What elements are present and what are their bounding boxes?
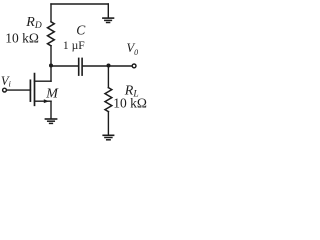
capacitor C: [79, 58, 82, 75]
wire: drain lead into transistor: [35, 80, 52, 82]
wire: capacitor to output terminal: [83, 65, 132, 67]
ground (AC ground at top right): [103, 18, 114, 22]
wire: drain node to capacitor: [51, 65, 78, 67]
wire: R_D top lead: [50, 4, 52, 22]
ground (source): [45, 119, 56, 123]
svg-text:Vi: Vi: [1, 74, 12, 89]
resistor R_L: [105, 88, 112, 112]
wire: drain net vertical (R_D bottom to drain corner): [50, 46, 52, 81]
wire: source to ground: [50, 101, 52, 118]
terminal V_0 (output open circle): [132, 64, 136, 68]
svg-text:10 kΩ: 10 kΩ: [5, 30, 39, 45]
svg-text:10 kΩ: 10 kΩ: [113, 96, 147, 111]
wire: R_L to ground: [107, 112, 109, 135]
resistor R_D: [48, 22, 55, 46]
svg-text:1 µF: 1 µF: [63, 39, 85, 52]
wire: VDD rail drop to AC ground: [107, 4, 109, 18]
transistor M: source lead with arrow: [35, 99, 52, 103]
svg-text:C: C: [76, 23, 86, 38]
transistor M: gate bar: [29, 80, 31, 101]
wire: VDD rail (top horizontal): [51, 3, 108, 5]
node: drain junction dot: [49, 64, 53, 68]
node: output junction dot: [107, 64, 111, 68]
svg-text:V0: V0: [127, 41, 139, 57]
ground (R_L): [103, 135, 113, 140]
svg-text:RD: RD: [25, 15, 42, 31]
transistor M: channel bar: [34, 74, 36, 106]
terminal V_i (input open circle): [3, 88, 7, 92]
wire: gate lead: [6, 89, 30, 91]
wire: R_L top lead: [107, 66, 109, 88]
svg-text:M: M: [45, 86, 59, 101]
